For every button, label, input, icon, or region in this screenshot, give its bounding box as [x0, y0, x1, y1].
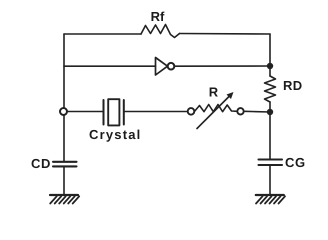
svg-text:Crystal: Crystal	[89, 127, 141, 142]
wire: left rail vertical (top corner down to CD)	[63, 34, 65, 161]
junction: inverter output / RD top node	[267, 63, 273, 69]
terminal: R left open circle	[188, 108, 195, 115]
ground (left): hatch strokes	[50, 196, 79, 203]
ground (right): top bar	[256, 194, 284, 196]
wire: CG to ground	[269, 166, 271, 194]
wire: crystal to variable resistor R	[125, 111, 188, 113]
wire: inverter output to node	[175, 65, 271, 67]
capacitor CG top plate	[259, 158, 283, 160]
svg-text:R: R	[209, 84, 219, 99]
junction: R / RD / CG node	[267, 109, 273, 115]
wire: RD bottom to node	[269, 102, 271, 112]
node: open circle on left rail (crystal line tap)	[60, 108, 67, 115]
wire: node down to CG	[269, 112, 271, 159]
wire: node to RD top	[269, 66, 271, 76]
wire: inverter input from left rail	[64, 65, 156, 67]
wire: CD to ground	[63, 167, 65, 193]
arrowhead of variable resistor R	[227, 92, 234, 99]
arrow of variable resistor R	[197, 96, 230, 129]
wire: open circle to crystal	[67, 111, 103, 113]
wire: top rail right segment	[180, 33, 271, 36]
crystal X1 right plate	[123, 100, 125, 125]
capacitor CD top plate	[53, 161, 77, 163]
svg-text:RD: RD	[283, 78, 303, 93]
wire: R to node	[244, 110, 270, 113]
op-amp inverter U1 (triangle)	[156, 58, 168, 76]
ground (right): hatch strokes	[256, 196, 285, 203]
wire: right rail top drop	[269, 34, 271, 66]
terminal: R right open circle	[237, 108, 243, 114]
svg-text:Rf: Rf	[151, 9, 165, 24]
resistor RD (vertical zigzag)	[265, 76, 276, 102]
wire: top rail left segment	[64, 33, 141, 35]
inverter output bubble	[168, 63, 175, 70]
crystal X1 body rectangle	[108, 99, 119, 125]
svg-text:CG: CG	[285, 155, 306, 170]
resistor Rf	[141, 25, 180, 38]
resistor R (zigzag)	[195, 105, 238, 112]
svg-text:CD: CD	[31, 156, 51, 171]
ground (left): top bar	[50, 194, 78, 196]
capacitor CG bottom plate	[259, 164, 283, 166]
crystal X1 left plate	[103, 100, 105, 125]
capacitor CD bottom plate	[53, 165, 77, 167]
